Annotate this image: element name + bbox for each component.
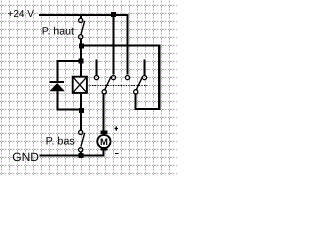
svg-text:P. haut: P. haut [42, 25, 74, 37]
junction on +24V rail [111, 12, 116, 17]
wire +24V rail [39, 14, 129, 16]
diode D1 cathode bar [50, 81, 65, 83]
wire motor bottom to GND rail [103, 151, 105, 157]
node A junction dot [79, 44, 84, 49]
wire diode top lead [57, 60, 59, 82]
svg-text:M: M [100, 137, 108, 148]
wire coil bottom to P.bas switch [80, 94, 82, 131]
wire K2 common down [135, 94, 137, 108]
motor plus sign [114, 128, 118, 129]
node B junction dot (diode top) [79, 59, 84, 64]
relay contact K2 (changeover) [125, 76, 146, 94]
wire P.bas to GND rail [80, 152, 82, 156]
wire rail right end down to contact K2 NC terminal [127, 14, 129, 75]
wire K2 common to right vertical [135, 108, 161, 110]
diode D1 triangle [49, 83, 64, 91]
push button P. bas [79, 130, 85, 152]
motor M1 top brush [100, 130, 107, 134]
dotted mechanical link line [90, 85, 148, 87]
svg-text:P. bas: P. bas [46, 135, 76, 147]
GND junction dot [79, 153, 84, 158]
wire P.haut switch to node A [80, 39, 82, 43]
svg-text:GND: GND [12, 150, 39, 164]
wire node B to diode top [57, 60, 81, 62]
motor minus sign [115, 153, 119, 154]
motor M1 body [97, 135, 110, 148]
wire hanging stub contact K2 right terminal [144, 60, 146, 76]
svg-text:+24 V: +24 V [8, 9, 35, 20]
wire stub rail to P.haut switch [80, 16, 82, 19]
push button P. haut [79, 18, 85, 39]
wire right vertical (node A net) [158, 45, 160, 110]
node C junction dot (coil bottom) [79, 108, 84, 113]
wire rail junction down to contact K1 NO terminal [113, 16, 115, 75]
motor M1 bottom brush [100, 147, 107, 151]
wire K1 common down to motor [103, 94, 105, 131]
wire GND rail [40, 155, 105, 157]
relay coil K [72, 76, 87, 93]
wire hanging stub contact K1 left terminal [96, 60, 98, 76]
relay contact K1 (changeover) [94, 76, 115, 94]
wire diode bottom to node C [57, 109, 82, 111]
wire diode bottom lead [57, 91, 59, 111]
wire node A down to relay coil [80, 46, 82, 77]
wire node A to right side (horizontal) [81, 45, 161, 47]
